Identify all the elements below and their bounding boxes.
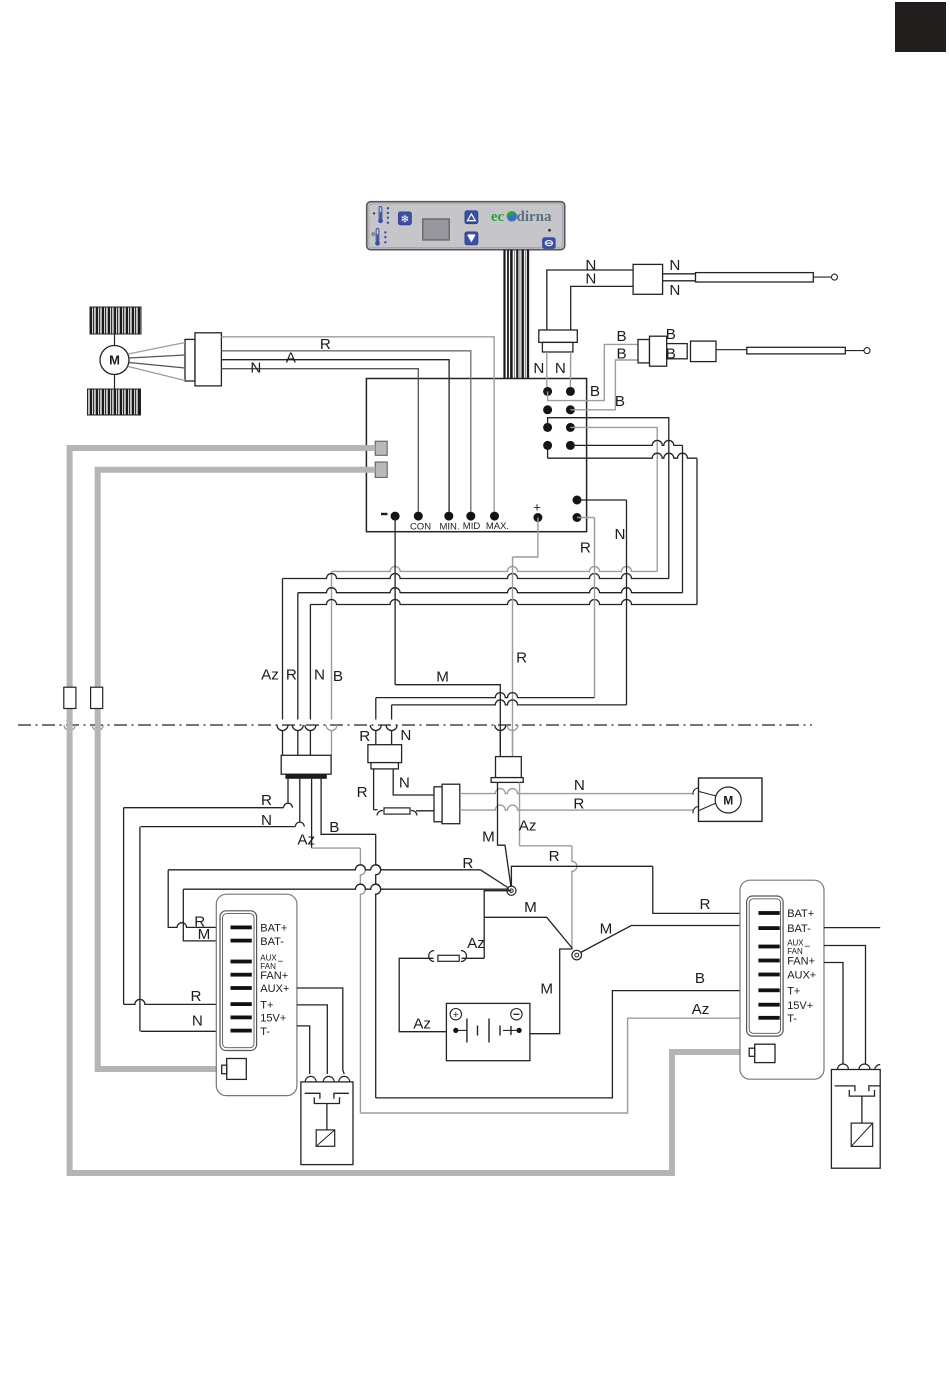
svg-text:T-: T- — [787, 1013, 797, 1025]
svg-text:M: M — [600, 921, 613, 938]
svg-text:R: R — [700, 896, 711, 913]
svg-text:R: R — [516, 650, 527, 667]
svg-text:Az: Az — [467, 935, 485, 952]
svg-text:dirna: dirna — [516, 209, 552, 225]
svg-text:B: B — [329, 819, 339, 836]
svg-text:FAN+: FAN+ — [260, 970, 288, 982]
svg-text:R: R — [549, 848, 560, 865]
svg-text:AUX+: AUX+ — [787, 970, 816, 982]
svg-text:R: R — [462, 855, 473, 872]
svg-text:N: N — [574, 777, 585, 794]
svg-text:M: M — [540, 980, 553, 997]
svg-text:BAT+: BAT+ — [787, 908, 814, 920]
svg-text:B: B — [695, 970, 705, 987]
svg-text:R: R — [286, 667, 297, 684]
svg-text:B: B — [666, 346, 676, 363]
svg-text:R: R — [359, 728, 370, 745]
svg-text:Az: Az — [297, 832, 315, 849]
svg-text:Az: Az — [519, 817, 537, 834]
svg-text:BAT+: BAT+ — [260, 923, 287, 935]
svg-text:N: N — [399, 775, 410, 792]
svg-text:CON: CON — [410, 522, 431, 533]
svg-text:❄: ❄ — [400, 213, 409, 225]
svg-text:+: + — [533, 500, 541, 515]
svg-text:B: B — [615, 393, 625, 410]
svg-text:MIN.: MIN. — [439, 522, 459, 533]
svg-text:B: B — [333, 668, 343, 685]
svg-text:M: M — [109, 353, 120, 368]
svg-text:+: + — [453, 1009, 459, 1021]
svg-text:MAX.: MAX. — [486, 521, 509, 532]
svg-text:T+: T+ — [787, 985, 800, 997]
svg-text:B: B — [617, 346, 627, 363]
svg-text:MID: MID — [463, 521, 481, 532]
svg-text:15V+: 15V+ — [260, 1013, 286, 1025]
svg-text:−: − — [278, 957, 284, 968]
svg-text:ec: ec — [491, 209, 505, 225]
svg-text:Az: Az — [413, 1016, 431, 1033]
svg-text:R: R — [261, 792, 272, 809]
svg-text:M: M — [524, 899, 537, 916]
svg-text:M: M — [198, 926, 211, 943]
svg-text:T-: T- — [260, 1026, 270, 1038]
svg-text:B: B — [590, 383, 600, 400]
svg-text:AUX+: AUX+ — [260, 983, 289, 995]
svg-text:N: N — [533, 360, 544, 377]
svg-text:N: N — [585, 271, 596, 288]
svg-text:N: N — [669, 257, 680, 274]
svg-text:T+: T+ — [260, 999, 273, 1011]
svg-text:N: N — [314, 667, 325, 684]
svg-text:N: N — [615, 526, 626, 543]
svg-text:A: A — [286, 349, 297, 366]
svg-text:R: R — [320, 336, 331, 353]
svg-text:R: R — [191, 988, 202, 1005]
svg-text:N: N — [555, 360, 566, 377]
svg-text:R: R — [573, 796, 584, 813]
svg-text:BAT-: BAT- — [260, 936, 284, 948]
svg-text:N: N — [261, 812, 272, 829]
svg-text:Az: Az — [692, 1001, 710, 1018]
svg-text:−: − — [804, 942, 810, 953]
svg-text:Az: Az — [261, 667, 279, 684]
svg-text:B: B — [617, 328, 627, 345]
svg-text:N: N — [250, 360, 261, 377]
svg-text:N: N — [192, 1013, 203, 1030]
svg-text:M: M — [723, 794, 733, 808]
svg-text:BAT-: BAT- — [787, 923, 811, 935]
svg-text:N: N — [400, 727, 411, 744]
svg-text:B: B — [666, 326, 676, 343]
svg-text:N: N — [669, 282, 680, 299]
svg-text:FAN: FAN — [787, 947, 803, 956]
svg-text:M: M — [482, 828, 495, 845]
svg-text:15V+: 15V+ — [787, 1000, 813, 1012]
svg-text:R: R — [357, 784, 368, 801]
svg-text:M: M — [436, 669, 449, 686]
svg-text:FAN+: FAN+ — [787, 956, 815, 968]
svg-text:R: R — [580, 540, 591, 557]
